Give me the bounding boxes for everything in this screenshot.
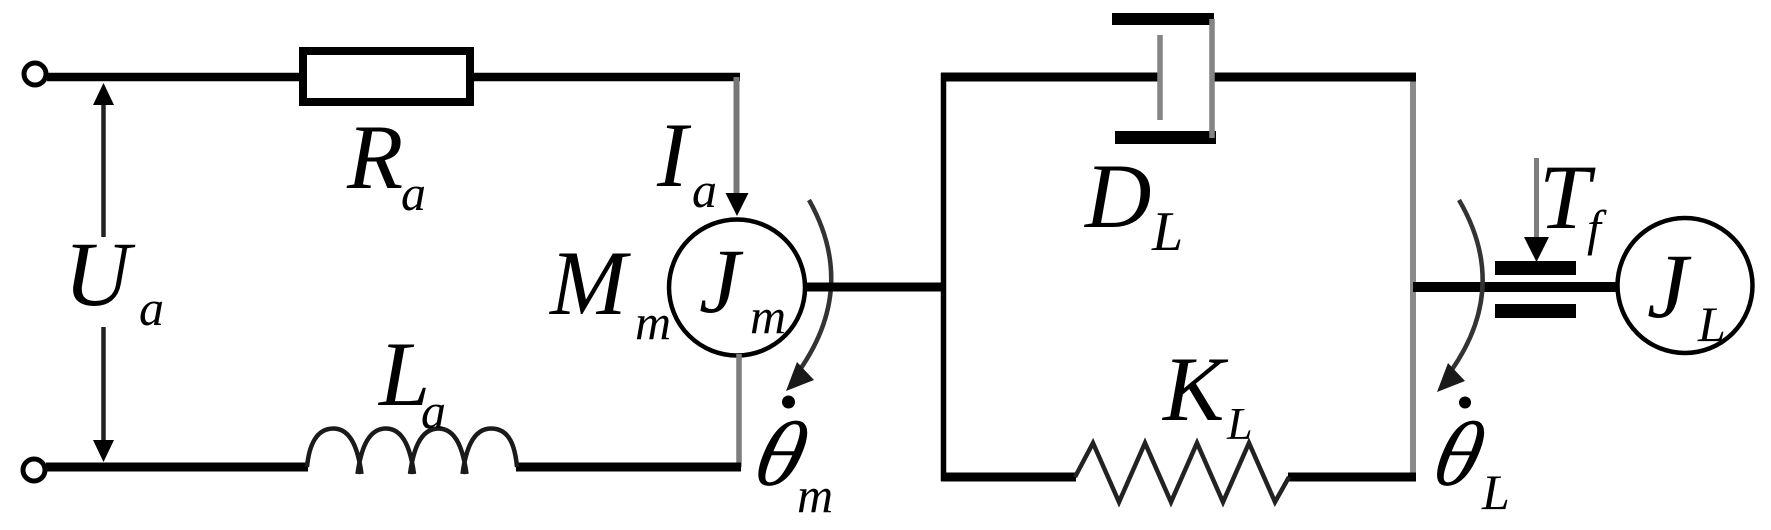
svg-text:a: a bbox=[692, 162, 717, 218]
svg-text:a: a bbox=[421, 383, 446, 439]
svg-text:M: M bbox=[548, 232, 631, 334]
svg-text:m: m bbox=[797, 467, 833, 523]
svg-text:U: U bbox=[64, 223, 136, 325]
svg-text:m: m bbox=[750, 288, 786, 344]
svg-text:L: L bbox=[1151, 201, 1183, 263]
svg-text:L: L bbox=[1226, 398, 1253, 449]
svg-text:m: m bbox=[635, 294, 671, 350]
svg-text:L: L bbox=[1697, 296, 1726, 352]
svg-text:I: I bbox=[656, 104, 692, 206]
svg-text:R: R bbox=[346, 106, 403, 208]
svg-text:K: K bbox=[1161, 338, 1229, 440]
svg-text:a: a bbox=[401, 165, 426, 221]
svg-text:L: L bbox=[1481, 464, 1510, 520]
svg-text:J: J bbox=[699, 230, 744, 332]
svg-text:J: J bbox=[1647, 235, 1692, 337]
svg-text:D: D bbox=[1083, 145, 1151, 247]
svg-text:a: a bbox=[139, 280, 164, 336]
